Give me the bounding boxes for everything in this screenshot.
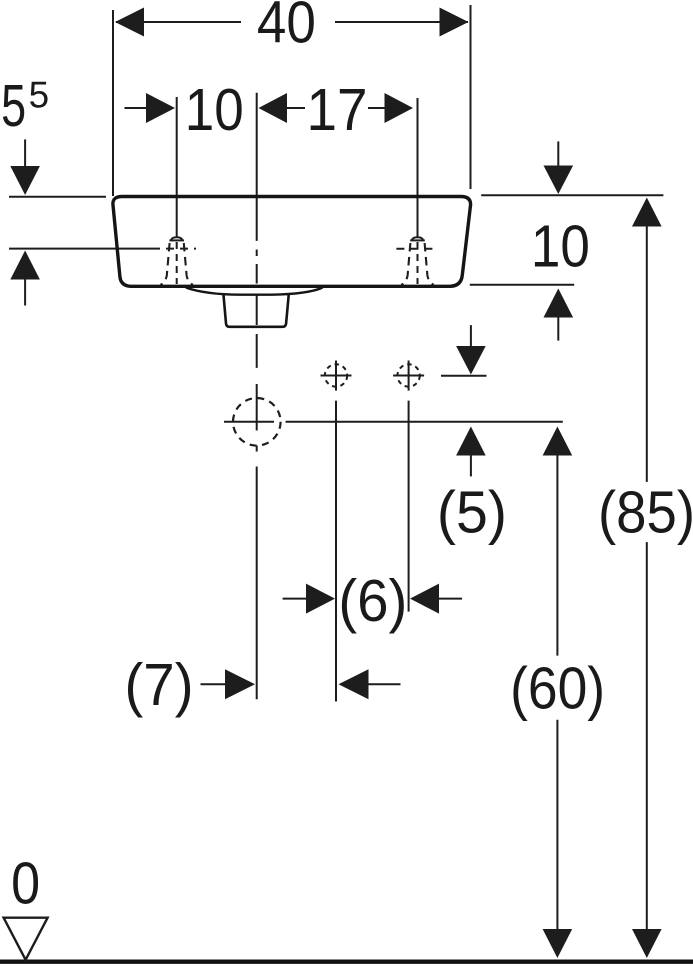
svg-text:(85): (85) [598, 479, 693, 545]
svg-text:40: 40 [257, 0, 316, 55]
svg-text:17: 17 [307, 77, 368, 143]
svg-text:10: 10 [185, 77, 244, 143]
svg-text:(7): (7) [125, 652, 194, 718]
svg-text:(5): (5) [437, 479, 507, 545]
svg-text:10: 10 [531, 213, 590, 279]
svg-text:(6): (6) [338, 568, 407, 634]
svg-text:0: 0 [11, 851, 40, 917]
svg-text:(60): (60) [510, 655, 605, 721]
svg-text:5: 5 [1, 73, 26, 139]
svg-text:5: 5 [29, 75, 50, 116]
